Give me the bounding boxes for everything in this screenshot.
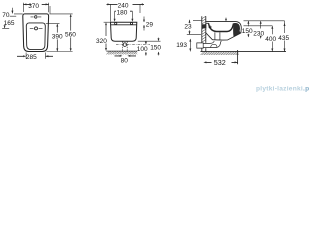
svg-text:390: 390 bbox=[52, 33, 63, 40]
wall bbox=[202, 16, 206, 51]
dim 150 line bbox=[158, 38, 160, 56]
trap pipe bottom line bbox=[203, 41, 221, 48]
svg-text:70: 70 bbox=[2, 12, 10, 19]
drain channel lines bbox=[215, 32, 220, 40]
wall bracket nub bbox=[202, 24, 206, 28]
waste centerline bbox=[116, 44, 150, 46]
bowl dip curve bbox=[209, 23, 234, 31]
svg-text:193: 193 bbox=[176, 42, 187, 49]
floor line bbox=[200, 51, 286, 53]
dim 435 bbox=[284, 21, 286, 52]
svg-text:435: 435 bbox=[278, 35, 289, 42]
dim 560 line bbox=[70, 17, 72, 50]
dim 560 extensions bbox=[47, 14, 73, 52]
dim 400 bbox=[244, 26, 273, 52]
dim 180 end arrows bbox=[115, 11, 133, 19]
svg-text:100: 100 bbox=[137, 46, 148, 53]
dim 165 arrow bbox=[4, 26, 6, 28]
tap hole marker bbox=[35, 16, 38, 19]
svg-text:285: 285 bbox=[26, 54, 37, 61]
dim 320 extension bbox=[104, 21, 111, 23]
svg-text:plytki-lazienki.pl: plytki-lazienki.pl bbox=[256, 86, 309, 93]
dim 70 arrow bbox=[10, 8, 23, 16]
side profile rim top bbox=[206, 22, 242, 34]
dim 532 bbox=[206, 50, 238, 64]
waste outlet circle bbox=[123, 43, 127, 47]
dim 370 extension lines bbox=[23, 3, 50, 14]
inner band arc to front bbox=[233, 23, 239, 30]
svg-text:165: 165 bbox=[4, 20, 15, 27]
dim 180 line bbox=[115, 10, 133, 12]
upper extension line bbox=[244, 20, 285, 22]
dim 23 bbox=[187, 20, 202, 35]
svg-text:532: 532 bbox=[214, 58, 226, 67]
fixing hole right bbox=[130, 22, 132, 24]
dim 193 bbox=[189, 39, 191, 51]
svg-text:560: 560 bbox=[65, 31, 76, 38]
svg-text:23: 23 bbox=[184, 23, 192, 30]
svg-text:29: 29 bbox=[146, 22, 154, 29]
svg-text:150: 150 bbox=[242, 28, 253, 35]
svg-text:230: 230 bbox=[253, 30, 264, 37]
dim 240 extensions bbox=[110, 4, 140, 21]
drain dashed pipe bbox=[122, 42, 124, 51]
svg-text:400: 400 bbox=[265, 36, 276, 43]
drain hole marker bbox=[35, 27, 38, 30]
dim 390 extension bbox=[46, 22, 60, 24]
underside outline bbox=[206, 33, 241, 40]
dim 230 (side) bbox=[260, 21, 262, 38]
dim 29 bracket bbox=[143, 17, 145, 31]
dim 285 extensions bbox=[26, 53, 45, 59]
bidet outer body (plan) bbox=[23, 14, 49, 52]
fixing hole left bbox=[115, 22, 117, 24]
dim 370 line bbox=[23, 3, 48, 5]
body bottom extension bbox=[138, 40, 161, 42]
dim 320 line bbox=[105, 26, 107, 49]
front nose solid bbox=[233, 23, 241, 37]
pipe wall flange bbox=[197, 43, 203, 48]
trap inner U bbox=[211, 44, 217, 47]
front body bbox=[111, 22, 137, 41]
side profile rim inner line bbox=[206, 22, 209, 24]
svg-text:180: 180 bbox=[117, 9, 128, 16]
svg-text:80: 80 bbox=[121, 57, 129, 64]
front rim lower line bbox=[111, 24, 137, 26]
dim 80 line bbox=[115, 55, 137, 57]
dim 150 (side) bbox=[247, 21, 249, 37]
dim 240 line bbox=[107, 3, 145, 5]
dim 285 line bbox=[17, 55, 53, 57]
svg-text:320: 320 bbox=[96, 38, 107, 45]
fixture mark above rim bbox=[225, 18, 227, 21]
svg-text:150: 150 bbox=[150, 44, 161, 51]
dim 100 line bbox=[145, 41, 147, 55]
bidet inner bowl (plan) bbox=[26, 23, 45, 50]
fixing circle near wall bbox=[209, 26, 211, 28]
text labels bbox=[2, 2, 289, 66]
floor hatch under front view bbox=[106, 50, 137, 52]
floor hatch bbox=[201, 52, 239, 55]
svg-text:370: 370 bbox=[28, 3, 39, 10]
trap pipe top line bbox=[203, 41, 214, 44]
dim 390 line bbox=[56, 24, 58, 51]
